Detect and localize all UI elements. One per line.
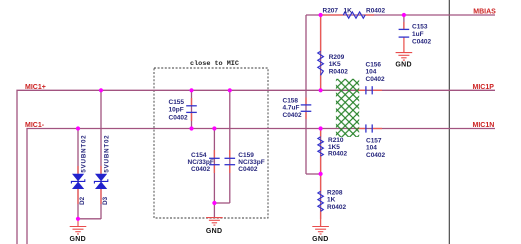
pin leads C153 [403,22,405,29]
junction R209/R207 on MBIAS [319,13,323,17]
junction C154 top on MIC1- [212,126,216,130]
junction R209 bottom on MIC1P [319,88,323,92]
svg-text:C0402: C0402 [191,166,211,173]
svg-text:104: 104 [366,68,377,75]
svg-text:MIC1P: MIC1P [473,84,495,91]
resistor R208 1K R0402 (vertical zigzag) [318,191,323,211]
svg-text:C0402: C0402 [238,166,258,173]
pin leads D3 [100,166,102,174]
svg-text:C156: C156 [366,61,382,68]
resistor R210 1K5 R0402 (vertical zigzag) [318,137,323,156]
junction R210 top on MIC1N [319,126,323,130]
svg-text:MIC1N: MIC1N [473,122,495,129]
wire C154 drop [213,129,215,204]
svg-text:R0402: R0402 [366,7,386,14]
svg-text:MBIAS: MBIAS [473,8,496,15]
svg-text:close to MIC: close to MIC [190,60,239,68]
svg-text:1K: 1K [327,197,336,204]
pin leads C156 [357,89,365,91]
ground symbol at C153 [396,53,413,61]
junction D2 on MIC1- [76,126,80,130]
ground symbol at R208 [312,227,329,235]
svg-text:C157: C157 [366,138,382,145]
wire MIC1+ horizontal rail [17,90,495,244]
junction C154/C159 ground node [212,201,216,205]
junction C155 top on MIC1+ [189,88,193,92]
capacitor C155 10pF C0402 [186,106,197,113]
svg-text:C154: C154 [191,152,207,159]
svg-text:GND: GND [395,62,411,69]
capacitor C157 104 C0402 (series, horizontal) [366,124,372,132]
svg-text:C0402: C0402 [366,152,386,159]
svg-text:C0402: C0402 [169,115,189,122]
capacitor C158 4.7uF C0402 [301,105,312,111]
resistor R209 1K5 R0402 (vertical zigzag) [318,51,324,75]
wire jog from C158 branch to R210/R208 junction [306,173,321,175]
hierarchical block border (vertical black line) [448,0,450,244]
svg-text:NC/33pF: NC/33pF [188,159,214,166]
svg-text:5VUBNT02: 5VUBNT02 [81,135,88,173]
resistor R207 1K R0402 (horizontal zigzag) [343,12,365,18]
svg-text:C155: C155 [169,99,185,106]
junction D2/D3 ground node [76,217,80,221]
TVS diode D3 5VUBNT02 [95,174,107,189]
svg-text:C0402: C0402 [283,112,303,119]
junction D3 on MIC1+ [99,88,103,92]
junction C153 on MBIAS [402,13,406,17]
svg-text:104: 104 [366,145,377,152]
capacitor C156 104 C0402 (series, horizontal) [366,86,372,94]
pin leads R207 [322,14,344,16]
svg-text:C153: C153 [412,23,428,30]
svg-text:R0402: R0402 [327,204,347,211]
svg-text:C0402: C0402 [412,39,432,46]
wire R209 vertical branch [320,15,322,90]
svg-text:R0402: R0402 [329,69,349,76]
svg-text:10pF: 10pF [169,107,184,114]
ground symbol at diodes [70,220,87,235]
svg-text:R0402: R0402 [328,151,348,158]
wire D3 drop from MIC1+ [100,90,102,219]
svg-text:C0402: C0402 [366,76,386,83]
wire MIC1- horizontal rail [27,129,495,244]
wire C155 vertical [191,90,193,128]
svg-text:R209: R209 [329,54,345,61]
svg-text:D2: D2 [79,196,86,204]
wire D2 drop from MIC1- [77,129,79,220]
svg-text:5VUBNT02: 5VUBNT02 [104,135,111,173]
svg-text:D3: D3 [102,196,109,204]
wire diode ground bus [78,218,101,220]
junction C159 top on MIC1+ [228,88,232,92]
pin leads C159 [229,150,231,158]
svg-text:4.7uF: 4.7uF [283,105,300,112]
wire MBIAS horizontal rail [306,14,495,16]
svg-text:1uF: 1uF [412,31,424,38]
svg-text:GND: GND [206,228,222,235]
svg-text:1K: 1K [344,7,353,14]
svg-text:C158: C158 [283,97,299,104]
pin leads R210 [320,130,322,137]
pin leads R208 [320,175,322,191]
ground symbol at C154/C159 [213,203,215,218]
TVS diode D2 5VUBNT02 [72,174,84,189]
svg-text:R207: R207 [323,7,339,14]
svg-text:C159: C159 [238,152,254,159]
wire C159 drop from MIC1+ [229,90,231,203]
wire C153 drop from MBIAS [403,15,405,29]
pin leads C154 [213,150,215,158]
svg-text:MIC1+: MIC1+ [25,84,46,91]
wire R210/R208 vertical branch [320,129,322,220]
pin leads R209 [320,16,322,51]
wire C154/C159 ground bus [214,202,229,204]
capacitor C159 NC/33pF C0402 [225,158,236,164]
pin leads C158 [305,98,307,105]
dashed region box "close to MIC" [154,68,268,218]
svg-text:1K5: 1K5 [329,61,341,68]
junction R210/R208/C158 node [319,172,323,176]
capacitor C153 1uF C0402 [399,29,410,37]
svg-text:R208: R208 [327,190,343,197]
red component pins overlay [78,15,404,226]
wire C158 branch vertical x=306 [305,15,307,174]
svg-text:GND: GND [312,236,328,243]
pin leads C157 [357,128,365,130]
svg-text:MIC1-: MIC1- [25,122,45,129]
capacitor C154 NC/33pF C0402 [209,158,220,164]
pin leads D2 [77,166,79,174]
junction C155 bottom on MIC1- [189,126,193,130]
pin leads C155 [191,98,193,106]
svg-text:GND: GND [70,236,86,243]
svg-text:NC/33pF: NC/33pF [238,159,264,166]
